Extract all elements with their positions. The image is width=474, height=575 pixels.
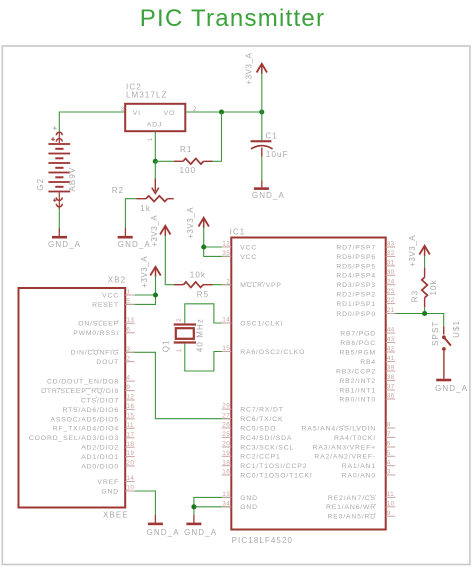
svg-text:3: 3 — [126, 346, 130, 353]
svg-text:1: 1 — [126, 289, 130, 296]
svg-text:GND: GND — [240, 504, 258, 511]
svg-text:8: 8 — [387, 422, 391, 429]
svg-text:VCC: VCC — [240, 254, 257, 261]
svg-text:ADJ: ADJ — [147, 122, 162, 129]
wire R2 to ground — [125, 199, 136, 228]
svg-text:RA2/AN2/VREF-: RA2/AN2/VREF- — [314, 454, 376, 461]
svg-text:18: 18 — [126, 441, 134, 448]
XB2 pin 3 — [70, 346, 134, 357]
IC1 pin 30 — [336, 269, 395, 280]
IC1 pin 5 — [314, 450, 395, 461]
svg-text:1k: 1k — [140, 204, 151, 213]
IC1 pin 33 — [336, 241, 395, 252]
svg-text:GND_A: GND_A — [48, 240, 81, 249]
svg-text:4: 4 — [126, 375, 130, 382]
svg-text:100: 100 — [180, 166, 197, 175]
XB2 pin 15 ASSOC/AD5/DIO5 — [50, 413, 134, 424]
svg-text:18: 18 — [222, 459, 230, 466]
svg-text:RB5/PGM: RB5/PGM — [339, 349, 376, 356]
svg-text:42: 42 — [387, 346, 395, 353]
svg-text:6: 6 — [126, 326, 130, 333]
XB2 pin 10 GND — [101, 485, 134, 496]
svg-text:RB0/INT0: RB0/INT0 — [339, 396, 376, 403]
svg-text:20: 20 — [222, 441, 230, 448]
svg-text:23: 23 — [387, 288, 395, 295]
svg-text:RA1/AN1: RA1/AN1 — [342, 463, 376, 470]
svg-text:RC0/T1OSO/T1CKI: RC0/T1OSO/T1CKI — [240, 472, 312, 479]
XB2 pin 12 — [81, 394, 135, 405]
switch S1 SPST U$1 — [443, 326, 445, 334]
svg-text:GND: GND — [240, 495, 258, 502]
svg-text:AD2/DIO2: AD2/DIO2 — [81, 445, 119, 452]
IC1 pin 13 — [222, 491, 258, 502]
svg-text:5: 5 — [387, 450, 391, 457]
svg-text:RE0/AN5/RD: RE0/AN5/RD — [327, 514, 376, 521]
IC1 pin 26 — [222, 422, 277, 433]
battery G2 (AB9V) — [48, 126, 70, 209]
XB2 pin 2 DOUT — [96, 355, 134, 366]
svg-text:VCC: VCC — [240, 244, 257, 251]
svg-text:31: 31 — [387, 260, 395, 267]
IC1 pin 21 — [336, 307, 395, 318]
IC1 pin 43 — [340, 336, 395, 347]
svg-text:RTS/AD6/DIO6: RTS/AD6/DIO6 — [62, 407, 119, 414]
svg-text:CD/DOUT_EN/DO8: CD/DOUT_EN/DO8 — [47, 379, 119, 386]
svg-text:RD0/PSP0: RD0/PSP0 — [336, 311, 376, 318]
svg-text:38: 38 — [387, 374, 395, 381]
IC1 pin 11 — [328, 491, 395, 502]
ground GND_A (S1) — [436, 379, 451, 382]
wire +3V3 to IC1 VCC pins 12/35 — [204, 228, 232, 248]
IC1 pin 7 — [334, 431, 395, 442]
svg-text:VO: VO — [164, 110, 176, 117]
IC1 pin 3 — [342, 469, 395, 480]
svg-text:10: 10 — [387, 500, 395, 507]
svg-text:3: 3 — [387, 469, 391, 476]
XB2 pin 1 VCC — [102, 289, 135, 300]
junction XBEE VCC node — [153, 292, 158, 297]
XB2 pin 13 — [78, 317, 135, 328]
XB2 pin 5 — [92, 298, 135, 309]
wire Q1 pin 2 to IC1 OSC1/CLKI — [185, 304, 232, 324]
svg-text:+3V3_A: +3V3_A — [244, 52, 253, 84]
svg-text:40 MHz: 40 MHz — [195, 318, 204, 352]
svg-text:29: 29 — [222, 403, 230, 410]
svg-text:VCC: VCC — [102, 292, 119, 299]
junction IC1 VCC node — [201, 244, 206, 249]
XB2 pin 4 CD/DOUT_EN/DO8 — [47, 375, 135, 386]
svg-text:PWM0/RSSI: PWM0/RSSI — [73, 330, 119, 337]
wire LM317 VO (pin 2) to +3V3 rail — [185, 111, 261, 113]
svg-text:12: 12 — [222, 241, 230, 248]
svg-text:RD4/PSP4: RD4/PSP4 — [336, 273, 376, 280]
wire XBEE GND to ground — [125, 491, 155, 515]
svg-text:RD2/PSP2: RD2/PSP2 — [336, 292, 376, 299]
svg-text:Q1: Q1 — [161, 339, 170, 352]
IC1 pin 25 — [222, 431, 292, 442]
svg-text:27: 27 — [222, 412, 230, 419]
power +3V3_A arrow (XBEE VCC) — [155, 267, 157, 277]
power +3V3_A arrow (top rail) — [261, 64, 263, 74]
wire XBEE DIN/CONFIG to IC1 RC6/TX/CK — [125, 352, 231, 418]
svg-text:14: 14 — [222, 317, 230, 324]
svg-text:R1: R1 — [180, 145, 192, 154]
svg-text:AD0/DIO0: AD0/DIO0 — [81, 463, 119, 470]
svg-text:RB4: RB4 — [360, 359, 376, 366]
svg-text:24: 24 — [387, 278, 395, 285]
svg-text:VI: VI — [133, 110, 141, 117]
XB2 pin 14 VREF — [97, 475, 134, 486]
IC1 pin 39 — [336, 365, 395, 376]
svg-text:11: 11 — [387, 491, 394, 498]
wire IC1 RD0/PSP0 to switch — [386, 314, 444, 327]
wire battery positive to LM317 VI (pin 3) — [59, 112, 125, 132]
IC1 pin 15 — [222, 345, 305, 356]
svg-text:33: 33 — [387, 241, 395, 248]
svg-text:AD1/DIO1: AD1/DIO1 — [81, 454, 119, 461]
svg-text:RA0/AN0: RA0/AN0 — [342, 472, 376, 479]
svg-text:CTS/DIO7: CTS/DIO7 — [81, 397, 119, 404]
svg-text:RC6/TX/CK: RC6/TX/CK — [240, 416, 283, 423]
wire R1 to VO rail — [221, 112, 223, 161]
svg-text:RA6/OSC2/CLKO: RA6/OSC2/CLKO — [240, 349, 305, 356]
svg-text:DIN/CONFIG: DIN/CONFIG — [70, 350, 119, 357]
svg-text:RC7/RX/DT: RC7/RX/DT — [240, 407, 284, 414]
svg-text:5: 5 — [126, 298, 130, 305]
svg-text:22: 22 — [387, 297, 395, 304]
svg-text:9: 9 — [126, 384, 130, 391]
svg-text:+3V3_A: +3V3_A — [186, 207, 195, 239]
svg-text:1: 1 — [176, 348, 183, 352]
potentiometer R2 1k — [154, 161, 156, 178]
svg-text:AB9V: AB9V — [68, 167, 77, 192]
svg-text:GND_A: GND_A — [118, 240, 151, 249]
svg-text:G2: G2 — [36, 178, 45, 191]
svg-text:17: 17 — [126, 431, 134, 438]
svg-text:RC4/SDI/SDA: RC4/SDI/SDA — [240, 435, 292, 442]
capacitor C1 10uF — [261, 112, 263, 140]
svg-text:12: 12 — [126, 394, 134, 401]
IC1 pin 22 — [336, 297, 395, 308]
junction at VO / R1 node — [219, 109, 224, 114]
ground GND_A (IC1) — [193, 515, 195, 523]
svg-text:4: 4 — [387, 459, 391, 466]
svg-text:37: 37 — [387, 384, 395, 391]
svg-text:2: 2 — [176, 318, 183, 322]
IC1 pin 4 — [342, 459, 395, 470]
IC1 pin 16 — [222, 469, 313, 480]
ground GND_A (C1) — [261, 181, 263, 188]
svg-text:RA3/AN3/VREF+: RA3/AN3/VREF+ — [313, 444, 376, 451]
XB2 pin 17 COORD_SEL/AD3/DIO3 — [29, 431, 135, 442]
svg-text:DOUT: DOUT — [96, 359, 119, 366]
svg-text:R2: R2 — [112, 186, 124, 195]
wire battery negative to ground — [58, 209, 60, 228]
svg-text:16: 16 — [222, 469, 230, 476]
XB2 pin 6 PWM0/RSSI — [73, 326, 134, 337]
svg-text:RC3/SCK/SCL: RC3/SCK/SCL — [240, 444, 294, 451]
svg-text:RB2/INT2: RB2/INT2 — [339, 378, 376, 385]
svg-text:OSC1/CLKI: OSC1/CLKI — [240, 320, 283, 327]
svg-text:2: 2 — [226, 278, 230, 285]
IC1 pin 35 — [222, 250, 257, 261]
IC1 pin 18 — [222, 459, 307, 470]
wire +3V3 to XBEE VCC/RESET — [125, 277, 155, 296]
svg-text:RB6/PGC: RB6/PGC — [340, 340, 376, 347]
svg-text:ON/SLEEP: ON/SLEEP — [78, 321, 119, 328]
IC1 pin 14 — [222, 317, 284, 328]
svg-text:11: 11 — [126, 422, 133, 429]
svg-text:10: 10 — [126, 485, 134, 492]
svg-text:RE1/AN6/WR: RE1/AN6/WR — [326, 504, 376, 511]
svg-text:RE2/AN7/CS: RE2/AN7/CS — [328, 495, 376, 502]
wire Q1 pin 1 to IC1 RA6/OSC2/CLKO — [185, 344, 232, 371]
IC1 pin 37 — [339, 384, 395, 395]
ground GND_A (R2) — [124, 228, 126, 236]
IC1 pin 6 — [313, 441, 396, 452]
svg-text:LM317LZ: LM317LZ — [126, 91, 168, 100]
IC1 pin 24 — [336, 278, 395, 289]
junction RD0 / R3 node — [422, 311, 427, 316]
IC1 pin 36 — [339, 393, 395, 404]
resistor R3 10k — [424, 256, 426, 268]
svg-text:RC2/CCP1: RC2/CCP1 — [240, 454, 280, 461]
svg-text:26: 26 — [222, 422, 230, 429]
IC1 pin 23 — [336, 288, 395, 299]
power +3V3_A arrow (IC1 VCC) — [203, 218, 205, 228]
svg-text:SPST: SPST — [431, 321, 440, 346]
IC1 pin 29 — [222, 403, 284, 414]
IC1 pin 34 — [222, 500, 258, 511]
IC1 pin 19 — [222, 450, 281, 461]
power +3V3_A arrow (R3) — [424, 246, 426, 256]
IC1 pin 31 — [336, 260, 395, 271]
svg-text:32: 32 — [387, 250, 395, 257]
voltage regulator IC2 LM317LZ — [125, 104, 185, 131]
svg-text:GND_A: GND_A — [147, 528, 180, 537]
svg-text:GND_A: GND_A — [435, 384, 468, 393]
svg-text:15: 15 — [222, 345, 230, 352]
svg-text:RA5/AN4/SS/LVDIN: RA5/AN4/SS/LVDIN — [302, 425, 376, 432]
svg-text:RF_TX/AD4/DIO4: RF_TX/AD4/DIO4 — [53, 426, 119, 433]
svg-text:RD6/PSP6: RD6/PSP6 — [336, 254, 376, 261]
svg-text:DTR/SLEEP_RQ/DI8: DTR/SLEEP_RQ/DI8 — [41, 388, 119, 395]
svg-text:19: 19 — [126, 450, 134, 457]
svg-text:R3: R3 — [410, 290, 419, 302]
resistor R5 10k — [174, 284, 184, 286]
IC1 pin 12 — [222, 241, 257, 252]
svg-text:+3V3_A: +3V3_A — [150, 215, 159, 247]
ground GND_A (battery) — [58, 228, 60, 236]
svg-text:6: 6 — [387, 441, 391, 448]
crystal Q1 40 MHz — [174, 323, 196, 325]
svg-text:1: 1 — [147, 137, 154, 141]
IC1 pin 10 — [326, 500, 395, 511]
svg-text:XBEE: XBEE — [103, 511, 129, 520]
svg-text:U$1: U$1 — [452, 320, 461, 338]
svg-text:+3V3_A: +3V3_A — [140, 256, 149, 288]
svg-text:19: 19 — [222, 450, 230, 457]
svg-text:COORD_SEL/AD3/DIO3: COORD_SEL/AD3/DIO3 — [29, 435, 119, 442]
svg-text:16: 16 — [126, 403, 134, 410]
IC1 pin 32 — [336, 250, 395, 261]
svg-text:43: 43 — [387, 336, 395, 343]
svg-text:7: 7 — [387, 431, 391, 438]
IC1 pin 9 — [327, 510, 395, 521]
XB2 pin 9 — [41, 384, 135, 395]
svg-text:RC5/SDO: RC5/SDO — [240, 425, 276, 432]
microcontroller IC1 PIC18LF4520 — [231, 238, 385, 530]
svg-text:RD5/PSP5: RD5/PSP5 — [336, 263, 376, 270]
IC1 pin 38 — [339, 374, 395, 385]
power +3V3_A arrow (R5) — [164, 226, 166, 236]
svg-text:XB2: XB2 — [108, 276, 126, 285]
wire LM317 ADJ (pin 1) down to R1/R2 node — [154, 131, 156, 161]
XB2 pin 11 RF_TX/AD4/DIO4 — [53, 422, 135, 433]
IC1 pin 27 — [222, 412, 284, 423]
IC1 pin 8 — [302, 422, 396, 433]
svg-text:9: 9 — [387, 510, 391, 517]
svg-text:PIC18LF4520: PIC18LF4520 — [232, 536, 293, 545]
svg-text:PIC Transmitter: PIC Transmitter — [140, 5, 325, 32]
module XB2 XBEE — [19, 288, 126, 508]
svg-text:10k: 10k — [190, 271, 206, 280]
svg-text:RC1/T1OSI/CCP2: RC1/T1OSI/CCP2 — [240, 463, 307, 470]
svg-text:RESET: RESET — [92, 302, 119, 309]
svg-text:10uF: 10uF — [266, 150, 289, 159]
svg-text:RD7/PSP7: RD7/PSP7 — [336, 244, 376, 251]
svg-text:2: 2 — [126, 355, 130, 362]
wire +3V3 to R5 — [165, 236, 174, 285]
svg-text:14: 14 — [126, 475, 134, 482]
svg-text:44: 44 — [387, 327, 395, 334]
svg-text:10k: 10k — [429, 279, 438, 295]
junction at +3V3 / C1 node — [259, 109, 264, 114]
svg-text:34: 34 — [222, 500, 230, 507]
svg-text:RB3/CCP2: RB3/CCP2 — [336, 368, 376, 375]
svg-text:15: 15 — [126, 413, 134, 420]
svg-text:MCLR/VPP: MCLR/VPP — [240, 282, 282, 289]
svg-text:GND_A: GND_A — [184, 528, 217, 537]
svg-text:RB7/PGD: RB7/PGD — [340, 330, 376, 337]
IC1 pin 20 — [222, 441, 294, 452]
svg-text:C1: C1 — [265, 131, 277, 140]
junction ADJ node — [153, 159, 158, 164]
XB2 pin 18 AD2/DIO2 — [81, 441, 134, 452]
IC1 pin 42 — [339, 346, 395, 357]
svg-text:IC1: IC1 — [230, 228, 246, 237]
svg-text:VREF: VREF — [97, 479, 119, 486]
IC1 pin 2 — [222, 278, 282, 289]
svg-text:GND: GND — [101, 488, 119, 495]
junction IC1 GND node — [191, 504, 196, 509]
svg-text:36: 36 — [387, 393, 395, 400]
wire IC1 GND pins 13/34 to ground — [194, 497, 231, 506]
svg-text:RB1/INT1: RB1/INT1 — [339, 387, 376, 394]
IC1 pin 44 — [340, 327, 395, 338]
svg-text:13: 13 — [126, 317, 134, 324]
svg-text:RD1/PSP1: RD1/PSP1 — [336, 301, 376, 308]
svg-text:30: 30 — [387, 269, 395, 276]
svg-text:R5: R5 — [197, 290, 209, 299]
svg-text:GND_A: GND_A — [252, 191, 285, 200]
wire +3V3 arrow to C1 node — [261, 74, 263, 113]
svg-text:RA4/T0CKI: RA4/T0CKI — [334, 435, 376, 442]
svg-text:ASSOC/AD5/DIO5: ASSOC/AD5/DIO5 — [50, 416, 119, 423]
svg-text:39: 39 — [387, 365, 395, 372]
svg-text:35: 35 — [222, 250, 230, 257]
XB2 pin 20 AD0/DIO0 — [81, 460, 134, 471]
svg-text:25: 25 — [222, 431, 230, 438]
svg-text:RD3/PSP3: RD3/PSP3 — [336, 282, 376, 289]
svg-text:3: 3 — [121, 106, 125, 113]
XB2 pin 16 — [62, 403, 134, 414]
IC1 pin 41 — [360, 355, 395, 366]
svg-text:+3V3_A: +3V3_A — [408, 235, 417, 267]
resistor R1 100 — [155, 160, 174, 162]
svg-text:41: 41 — [387, 355, 395, 362]
ground GND_A (XBEE) — [154, 515, 156, 523]
svg-text:20: 20 — [126, 460, 134, 467]
svg-text:13: 13 — [222, 491, 230, 498]
svg-text:21: 21 — [387, 307, 395, 314]
XB2 pin 19 AD1/DIO1 — [81, 450, 134, 461]
